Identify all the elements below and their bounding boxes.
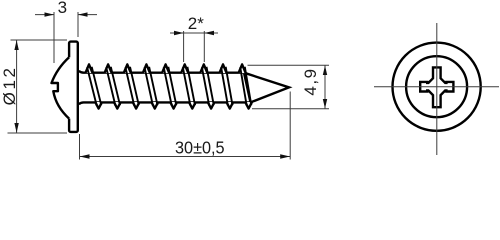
svg-text:30±0,5: 30±0,5 <box>175 138 225 158</box>
flange washer of head <box>69 42 78 132</box>
svg-text:4,9: 4,9 <box>301 67 320 95</box>
arrow 2* left <box>174 31 184 35</box>
outer circle (flange Ø12) <box>393 43 481 131</box>
thread crest 5 <box>162 64 177 108</box>
wire: extension line right of dim 30 <box>289 92 291 160</box>
wire: extension line top of thread (4,9) <box>248 64 330 66</box>
arrow Ø12 bottom <box>14 123 18 133</box>
wire: extension line right of dim 3 <box>77 12 79 37</box>
dimension line 30+-0,5 <box>80 156 291 158</box>
thread crest 1 <box>85 64 102 108</box>
svg-text:2*: 2* <box>188 14 204 33</box>
arrow Ø12 top <box>14 40 18 50</box>
wire: extension line top of head (Ø12) <box>11 39 68 41</box>
wire: shank bottom root line <box>79 102 250 104</box>
dimension line 3 (right tail) <box>78 14 97 16</box>
arrow 4,9 top <box>323 66 327 76</box>
inner circle (dome) <box>406 56 467 117</box>
centerline vertical <box>436 23 438 155</box>
centerline horizontal <box>374 86 499 88</box>
dimension line 4,9 <box>324 65 326 108</box>
arrow 4,9 bottom <box>323 99 327 109</box>
thread crest 3 <box>124 64 140 108</box>
arrow 30 right <box>280 154 290 158</box>
dimension line 2* <box>170 32 218 34</box>
thread crest 7 <box>200 64 214 108</box>
thread crest 6 <box>181 64 196 108</box>
screw head dome <box>52 57 72 118</box>
thread crest 2 <box>105 64 121 108</box>
dimension line 3 (left tail) <box>35 14 54 16</box>
svg-text:Ø12: Ø12 <box>0 65 19 105</box>
arrow 3 right <box>78 12 88 16</box>
wire: extension line bottom of head (Ø12) <box>8 132 68 134</box>
wire: extension line left of dim 3 <box>53 12 55 63</box>
arrow 30 left <box>80 154 90 158</box>
wire: shank top root line <box>79 71 245 73</box>
arrow 2* right <box>204 31 214 35</box>
svg-text:3: 3 <box>58 0 67 17</box>
dimension line Ø12 <box>16 40 18 133</box>
wire: extension line left of dim 30 <box>79 134 81 160</box>
wire: extension line left of dim 2* <box>183 31 185 62</box>
arrow 3 left <box>45 12 55 16</box>
thread crest 4 <box>143 64 158 108</box>
phillips cross recess <box>420 67 453 107</box>
wire: extension line bottom of thread (4,9) <box>252 108 329 110</box>
screw cone tip <box>244 73 289 103</box>
wire: extension line right of dim 2* <box>203 31 205 62</box>
thread crest 9 (on cone) <box>239 64 253 108</box>
screw shank body <box>78 73 244 103</box>
thread crest 8 <box>219 64 233 108</box>
